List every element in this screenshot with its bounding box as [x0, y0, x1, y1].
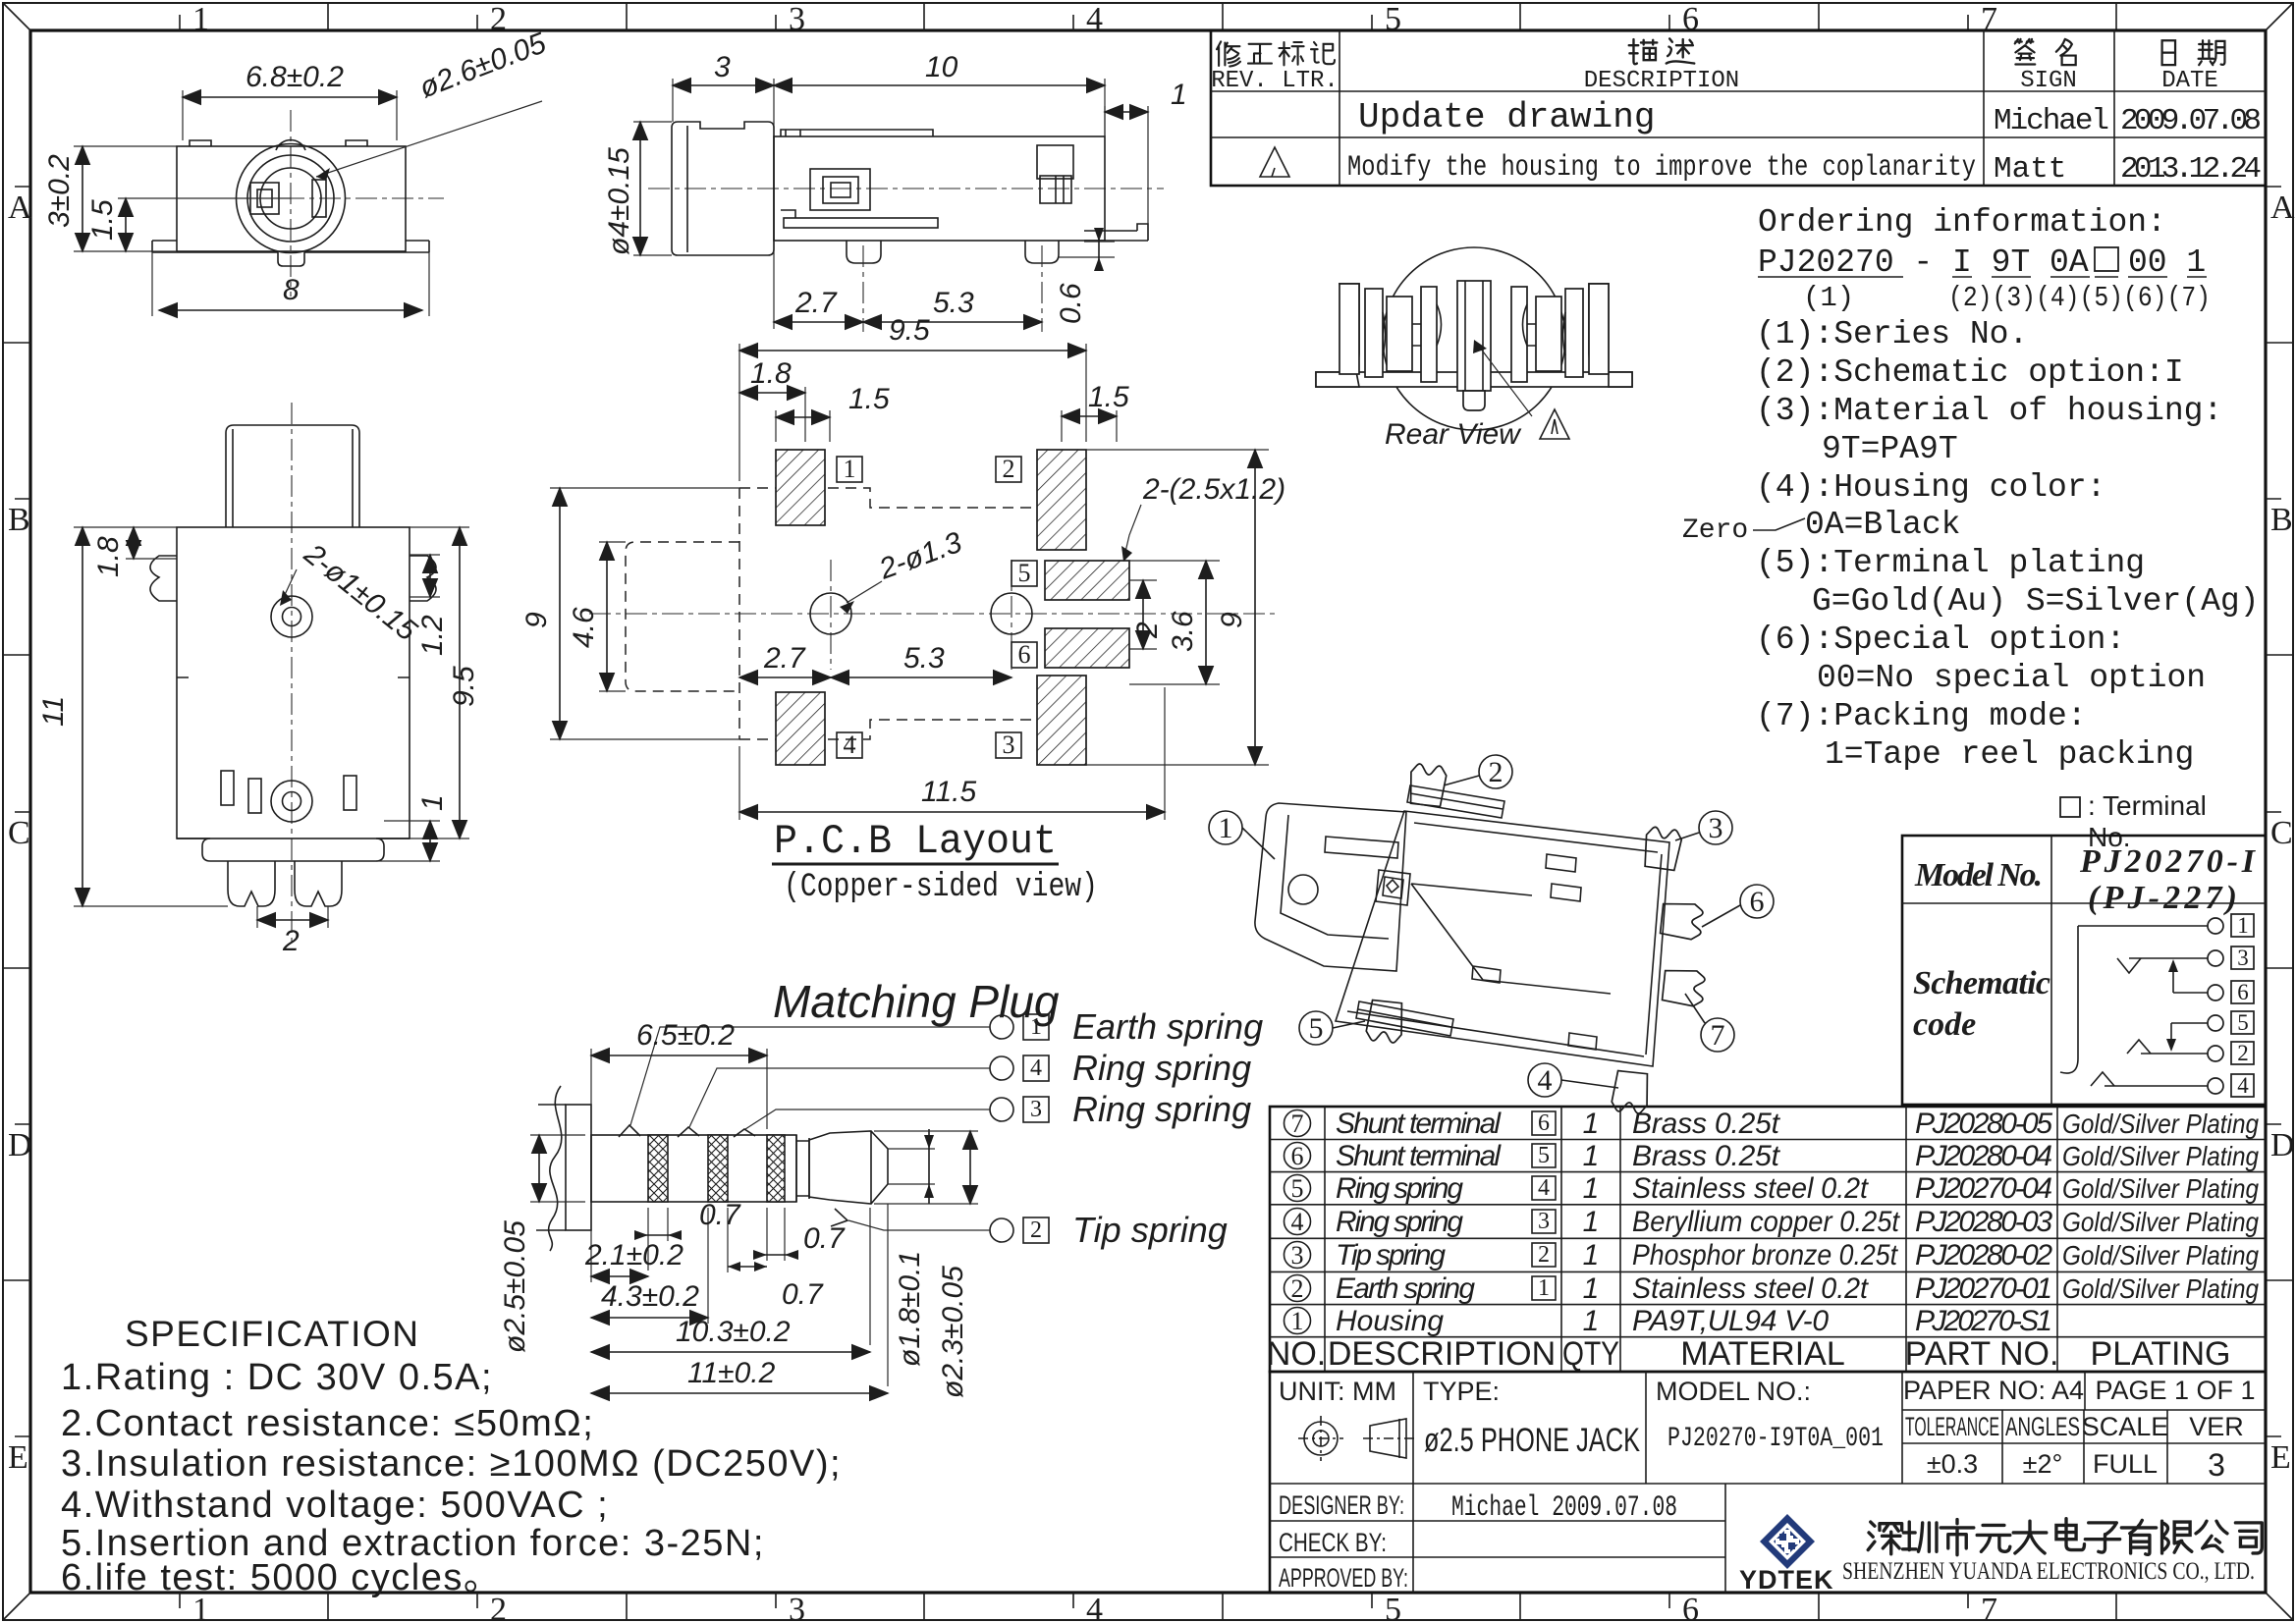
svg-text:E: E: [8, 1439, 28, 1476]
svg-text:6.life test: 5000 cycles。: 6.life test: 5000 cycles。: [61, 1557, 502, 1598]
svg-text:APPROVED BY:: APPROVED BY:: [1279, 1563, 1408, 1593]
svg-text:3: 3: [2237, 946, 2249, 970]
svg-text:E: E: [2270, 1439, 2291, 1476]
svg-text:00=No special option: 00=No special option: [1817, 660, 2206, 696]
svg-text:Housing: Housing: [1336, 1305, 1444, 1337]
svg-text:D: D: [2270, 1127, 2295, 1163]
svg-text:Phosphor bronze 0.25t: Phosphor bronze 0.25t: [1632, 1239, 1898, 1271]
svg-text:PLATING: PLATING: [2091, 1335, 2231, 1373]
svg-text:2: 2: [1538, 1242, 1550, 1268]
svg-text:DESCRIPTION: DESCRIPTION: [1584, 68, 1739, 94]
svg-text:(6):Special option:: (6):Special option:: [1756, 622, 2125, 658]
svg-text:PJ20270-01: PJ20270-01: [1915, 1272, 2052, 1305]
svg-text:code: code: [1913, 1006, 1976, 1043]
svg-text:TYPE:: TYPE:: [1423, 1377, 1500, 1406]
svg-text:4: 4: [844, 730, 856, 759]
svg-text:PJ20280-05: PJ20280-05: [1915, 1108, 2052, 1140]
svg-text:Update drawing: Update drawing: [1358, 97, 1655, 137]
svg-text:Michael 2009.07.08: Michael 2009.07.08: [1451, 1491, 1677, 1525]
svg-text:11.5: 11.5: [921, 776, 976, 808]
svg-text:5: 5: [1309, 1012, 1324, 1045]
svg-text:1.5: 1.5: [1088, 381, 1129, 413]
svg-text:Gold/Silver Plating: Gold/Silver Plating: [2062, 1207, 2259, 1237]
svg-text:1: 1: [1583, 1272, 1600, 1305]
svg-text:Modify the housing to improve: Modify the housing to improve the coplan…: [1347, 151, 1976, 185]
svg-text:PJ20280-02: PJ20280-02: [1915, 1239, 2052, 1271]
svg-text:7: 7: [1981, 1592, 1997, 1623]
svg-text:9: 9: [520, 612, 553, 628]
svg-text:8: 8: [283, 274, 300, 306]
svg-text:PAPER NO: A4: PAPER NO: A4: [1903, 1376, 2084, 1405]
svg-text:Gold/Silver Plating: Gold/Silver Plating: [2062, 1273, 2259, 1304]
svg-text:Ring spring: Ring spring: [1336, 1206, 1463, 1238]
svg-text:0.6: 0.6: [1055, 283, 1087, 324]
svg-text:(2):Schematic option:I: (2):Schematic option:I: [1756, 354, 2184, 391]
svg-text:PJ20270-I: PJ20270-I: [2079, 843, 2257, 880]
svg-text:REV. LTR.: REV. LTR.: [1211, 68, 1339, 94]
svg-text:ANGLES: ANGLES: [2005, 1412, 2080, 1441]
svg-text:Stainless steel 0.2t: Stainless steel 0.2t: [1632, 1272, 1870, 1305]
svg-text:1.5: 1.5: [86, 199, 119, 241]
svg-text:11±0.2: 11±0.2: [687, 1357, 776, 1389]
svg-text:4: 4: [1030, 1055, 1042, 1081]
svg-text:4: 4: [1086, 1592, 1103, 1623]
svg-text:6: 6: [1291, 1142, 1304, 1170]
svg-text:FULL: FULL: [2093, 1449, 2158, 1479]
svg-text:(1): (1): [1803, 282, 1854, 314]
svg-text:10: 10: [925, 51, 958, 83]
svg-text:Zero: Zero: [1682, 515, 1748, 546]
svg-text:11: 11: [37, 696, 70, 727]
svg-text:DATE: DATE: [2161, 68, 2218, 94]
svg-text:ø2.5±0.05: ø2.5±0.05: [499, 1220, 531, 1353]
svg-text:SPECIFICATION: SPECIFICATION: [125, 1314, 419, 1354]
svg-text:0A=Black: 0A=Black: [1805, 507, 1960, 543]
svg-text:4: 4: [1538, 1064, 1553, 1097]
svg-text:Ring spring: Ring spring: [1336, 1172, 1463, 1205]
svg-text:5.3: 5.3: [933, 287, 974, 319]
svg-text:B: B: [2270, 502, 2293, 538]
svg-text:2-(2.5x1.2): 2-(2.5x1.2): [1142, 473, 1285, 506]
svg-text:Rear View: Rear View: [1385, 418, 1522, 451]
svg-text:5.3: 5.3: [903, 642, 945, 675]
svg-text:6: 6: [1682, 1, 1699, 37]
svg-text:0.7: 0.7: [699, 1199, 741, 1231]
svg-text:5: 5: [1538, 1143, 1550, 1168]
svg-text:(5):Terminal plating: (5):Terminal plating: [1756, 545, 2145, 581]
svg-text:2.7: 2.7: [794, 287, 838, 319]
svg-text:9: 9: [1216, 612, 1248, 628]
svg-text:SCALE: SCALE: [2082, 1412, 2169, 1441]
svg-text:Ordering information:: Ordering information:: [1758, 204, 2166, 241]
svg-text:2: 2: [2237, 1041, 2249, 1065]
svg-text:6: 6: [1538, 1110, 1550, 1136]
svg-text:1: 1: [192, 1, 209, 37]
svg-text:6: 6: [1750, 886, 1765, 918]
svg-text:1: 1: [1583, 1140, 1600, 1172]
svg-text:UNIT: MM: UNIT: MM: [1279, 1377, 1396, 1406]
svg-text:10.3±0.2: 10.3±0.2: [676, 1316, 791, 1348]
svg-text:(Copper-sided view): (Copper-sided view): [784, 869, 1098, 906]
svg-text:: Terminal: : Terminal: [2088, 790, 2207, 821]
svg-text:1: 1: [2237, 913, 2249, 938]
svg-text:Tip spring: Tip spring: [1072, 1210, 1228, 1250]
svg-text:Brass 0.25t: Brass 0.25t: [1632, 1140, 1781, 1172]
svg-text:4.3±0.2: 4.3±0.2: [601, 1280, 699, 1313]
svg-text:1: 1: [1171, 79, 1187, 111]
svg-text:1: 1: [1219, 812, 1233, 844]
svg-text:1: 1: [844, 455, 856, 483]
svg-text:1: 1: [1291, 1307, 1304, 1335]
svg-text:0.7: 0.7: [803, 1222, 846, 1255]
svg-text:9.5: 9.5: [448, 666, 480, 707]
svg-text:Stainless steel 0.2t: Stainless steel 0.2t: [1632, 1172, 1870, 1205]
svg-text:2: 2: [1131, 622, 1164, 639]
svg-text:ø2.5 PHONE JACK: ø2.5 PHONE JACK: [1424, 1422, 1640, 1459]
svg-text:B: B: [8, 502, 30, 538]
svg-text:(1):Series No.: (1):Series No.: [1756, 316, 2028, 352]
svg-text:2: 2: [1003, 455, 1015, 483]
svg-text:3: 3: [714, 51, 731, 83]
svg-text:PJ20280-04: PJ20280-04: [1915, 1140, 2052, 1172]
svg-text:CHECK BY:: CHECK BY:: [1279, 1528, 1387, 1557]
svg-text:A: A: [8, 189, 32, 226]
svg-text:PJ20270-S1: PJ20270-S1: [1915, 1305, 2052, 1337]
svg-text:SHENZHEN YUANDA ELECTRONICS CO: SHENZHEN YUANDA ELECTRONICS CO., LTD.: [1842, 1558, 2255, 1585]
svg-text:4.Withstand voltage: 500VAC ;: 4.Withstand voltage: 500VAC ;: [61, 1485, 609, 1526]
svg-text:YDTEK: YDTEK: [1739, 1565, 1834, 1595]
svg-text:2: 2: [1489, 756, 1503, 788]
svg-text:Ring spring: Ring spring: [1072, 1089, 1251, 1129]
svg-text:ø1.8±0.1: ø1.8±0.1: [894, 1251, 926, 1367]
svg-text:00 1: 00 1: [2128, 244, 2206, 281]
svg-text:3: 3: [1709, 812, 1723, 844]
svg-text:2013.12.24: 2013.12.24: [2120, 152, 2262, 187]
svg-text:Model No.: Model No.: [1914, 857, 2043, 893]
svg-text:6: 6: [2237, 980, 2249, 1004]
svg-text:1: 1: [1583, 1108, 1600, 1140]
svg-text:(3):Material of housing:: (3):Material of housing:: [1756, 393, 2222, 429]
svg-text:MATERIAL: MATERIAL: [1680, 1335, 1845, 1373]
svg-text:A: A: [2270, 189, 2295, 226]
svg-text:PJ20280-03: PJ20280-03: [1915, 1206, 2052, 1238]
svg-text:Shunt terminal: Shunt terminal: [1336, 1108, 1502, 1140]
svg-text:1=Tape reel packing: 1=Tape reel packing: [1825, 736, 2194, 773]
svg-text:3±0.2: 3±0.2: [43, 154, 76, 228]
svg-text:4: 4: [1291, 1208, 1304, 1236]
svg-text:Schematic: Schematic: [1913, 965, 2050, 1001]
svg-text:2: 2: [1291, 1274, 1304, 1303]
svg-text:Ring spring: Ring spring: [1072, 1048, 1251, 1088]
svg-text:3: 3: [1538, 1209, 1550, 1234]
svg-text:2: 2: [1030, 1217, 1042, 1243]
svg-text:7: 7: [1291, 1109, 1304, 1138]
svg-text:4.6: 4.6: [568, 607, 600, 648]
svg-text:Matching Plug: Matching Plug: [773, 976, 1060, 1027]
svg-text:Earth spring: Earth spring: [1072, 1006, 1263, 1047]
svg-text:NO.: NO.: [1267, 1335, 1326, 1373]
svg-text:Earth spring: Earth spring: [1336, 1272, 1475, 1305]
svg-text:SIGN: SIGN: [2020, 68, 2077, 94]
svg-text:±2°: ±2°: [2023, 1449, 2063, 1479]
svg-text:2: 2: [282, 925, 300, 957]
svg-text:1.8: 1.8: [750, 357, 792, 390]
svg-text:DESIGNER BY:: DESIGNER BY:: [1279, 1490, 1404, 1520]
svg-text:6: 6: [1682, 1592, 1699, 1623]
svg-text:1: 1: [1583, 1206, 1600, 1238]
svg-text:5: 5: [1385, 1592, 1401, 1623]
svg-text:1: 1: [416, 794, 449, 811]
svg-text:1.5: 1.5: [848, 383, 890, 415]
svg-text:PAGE 1 OF 1: PAGE 1 OF 1: [2095, 1376, 2255, 1405]
svg-text:PJ20270-I9T0A_001: PJ20270-I9T0A_001: [1667, 1424, 1884, 1454]
svg-text:5: 5: [2237, 1010, 2249, 1035]
svg-text:4: 4: [1538, 1175, 1550, 1201]
svg-text:±0.3: ±0.3: [1927, 1449, 1978, 1479]
svg-text:C: C: [8, 815, 30, 851]
svg-text:0.7: 0.7: [782, 1278, 824, 1311]
svg-text:QTY: QTY: [1562, 1335, 1619, 1373]
svg-text:PJ20270-04: PJ20270-04: [1915, 1172, 2052, 1205]
svg-text:P.C.B Layout: P.C.B Layout: [774, 818, 1057, 865]
svg-text:MODEL NO.:: MODEL NO.:: [1656, 1377, 1811, 1406]
svg-text:2.1±0.2: 2.1±0.2: [584, 1239, 683, 1271]
svg-text:Gold/Silver Plating: Gold/Silver Plating: [2062, 1141, 2259, 1171]
svg-text:9.5: 9.5: [889, 314, 930, 347]
svg-text:1: 1: [1583, 1172, 1600, 1205]
svg-text:6.5±0.2: 6.5±0.2: [636, 1019, 735, 1052]
svg-text:Gold/Silver Plating: Gold/Silver Plating: [2062, 1173, 2259, 1204]
svg-text:3: 3: [789, 1592, 805, 1623]
svg-text:4: 4: [1086, 1, 1103, 37]
svg-text:ø2.3±0.05: ø2.3±0.05: [937, 1266, 969, 1398]
svg-text:1.Rating : DC 30V 0.5A;: 1.Rating : DC 30V 0.5A;: [61, 1357, 493, 1398]
svg-text:(4):Housing color:: (4):Housing color:: [1756, 469, 2105, 506]
svg-text:Gold/Silver Plating: Gold/Silver Plating: [2062, 1240, 2259, 1271]
svg-text:4: 4: [2237, 1073, 2249, 1098]
svg-text:VER: VER: [2189, 1412, 2244, 1441]
svg-text:Tip spring: Tip spring: [1336, 1239, 1446, 1271]
svg-text:C: C: [2270, 815, 2293, 851]
svg-text:PJ20270 - I 9T 0A: PJ20270 - I 9T 0A: [1758, 244, 2089, 281]
svg-text:1: 1: [1583, 1239, 1600, 1271]
svg-text:G=Gold(Au) S=Silver(Ag): G=Gold(Au) S=Silver(Ag): [1812, 583, 2259, 620]
svg-text:5: 5: [1385, 1, 1401, 37]
svg-text:2.7: 2.7: [763, 642, 806, 675]
svg-text:ø4±0.15: ø4±0.15: [603, 147, 635, 255]
svg-text:6: 6: [1018, 640, 1031, 669]
svg-text:1: 1: [1538, 1275, 1550, 1301]
svg-text:Michael: Michael: [1994, 104, 2109, 138]
svg-text:TOLERANCE: TOLERANCE: [1905, 1412, 1999, 1441]
svg-text:Beryllium copper 0.25t: Beryllium copper 0.25t: [1632, 1206, 1901, 1238]
svg-text:3: 3: [2208, 1447, 2225, 1483]
svg-text:2: 2: [490, 1, 507, 37]
svg-text:PART NO.: PART NO.: [1905, 1335, 2059, 1373]
svg-text:3.6: 3.6: [1167, 611, 1199, 652]
svg-text:2.Contact resistance: ≤50mΩ;: 2.Contact resistance: ≤50mΩ;: [61, 1403, 594, 1444]
svg-text:(2)(3)(4)(5)(6)(7): (2)(3)(4)(5)(6)(7): [1948, 282, 2211, 314]
svg-text:D: D: [8, 1127, 32, 1163]
svg-text:5: 5: [1018, 559, 1031, 587]
svg-text:3: 3: [1291, 1241, 1304, 1270]
svg-text:Gold/Silver Plating: Gold/Silver Plating: [2062, 1109, 2259, 1139]
svg-text:3: 3: [1030, 1097, 1042, 1122]
svg-text:DESCRIPTION: DESCRIPTION: [1328, 1335, 1556, 1373]
svg-text:1.8: 1.8: [92, 536, 125, 577]
svg-text:Shunt terminal: Shunt terminal: [1336, 1140, 1502, 1172]
svg-text:3: 3: [1003, 730, 1015, 759]
svg-text:2009.07.08: 2009.07.08: [2120, 104, 2262, 138]
svg-text:9T=PA9T: 9T=PA9T: [1822, 431, 1958, 467]
svg-text:1: 1: [1583, 1305, 1600, 1337]
svg-text:5: 5: [1291, 1174, 1304, 1203]
svg-text:Matt: Matt: [1994, 152, 2066, 187]
svg-text:3.Insulation resistance: ≥100M: 3.Insulation resistance: ≥100MΩ (DC250V)…: [61, 1443, 842, 1485]
svg-text:PA9T,UL94 V-0: PA9T,UL94 V-0: [1632, 1305, 1829, 1337]
svg-text:Brass 0.25t: Brass 0.25t: [1632, 1108, 1781, 1140]
svg-text:3: 3: [789, 1, 805, 37]
svg-text:(7):Packing mode:: (7):Packing mode:: [1756, 698, 2087, 734]
svg-text:1: 1: [1030, 1014, 1042, 1040]
svg-text:6.8±0.2: 6.8±0.2: [246, 61, 344, 93]
svg-text:7: 7: [1711, 1019, 1725, 1052]
